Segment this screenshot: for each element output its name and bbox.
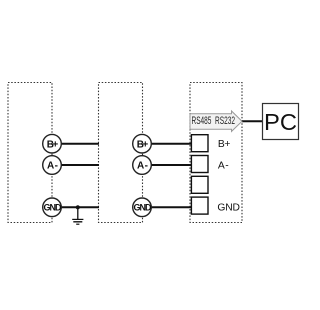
svg-text:GND: GND [44, 203, 63, 213]
svg-text:B+: B+ [47, 139, 59, 150]
svg-text:PC: PC [264, 109, 297, 135]
svg-text:A-: A- [137, 161, 148, 172]
svg-text:B+: B+ [218, 139, 231, 150]
svg-text:RS485 RS232: RS485 RS232 [192, 115, 236, 127]
svg-text:A-: A- [47, 161, 58, 172]
svg-text:A-: A- [218, 160, 229, 171]
svg-text:GND: GND [134, 203, 153, 213]
svg-text:GND: GND [217, 202, 240, 213]
svg-text:B+: B+ [137, 139, 149, 150]
